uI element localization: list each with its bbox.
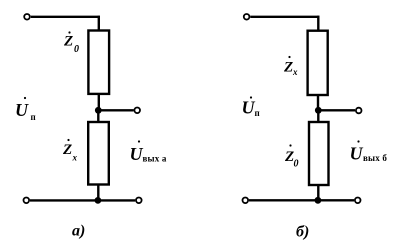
svg-text:U: U bbox=[242, 98, 256, 118]
svg-text:Z: Z bbox=[283, 60, 293, 76]
svg-text:вых б: вых б bbox=[363, 153, 387, 163]
svg-text:U: U bbox=[15, 100, 29, 120]
svg-text:x: x bbox=[72, 153, 78, 163]
svg-text:б): б) bbox=[296, 224, 309, 241]
svg-text:а): а) bbox=[72, 223, 85, 240]
svg-text:0: 0 bbox=[74, 44, 79, 55]
svg-text:U: U bbox=[130, 144, 144, 164]
svg-text:Z: Z bbox=[62, 142, 72, 158]
svg-text:п: п bbox=[31, 112, 36, 122]
svg-text:п: п bbox=[255, 108, 260, 118]
svg-text:0: 0 bbox=[294, 159, 299, 170]
svg-text:U: U bbox=[350, 144, 364, 164]
svg-text:x: x bbox=[292, 67, 298, 77]
svg-text:Z: Z bbox=[63, 34, 73, 50]
svg-text:вых а: вых а bbox=[143, 154, 167, 164]
